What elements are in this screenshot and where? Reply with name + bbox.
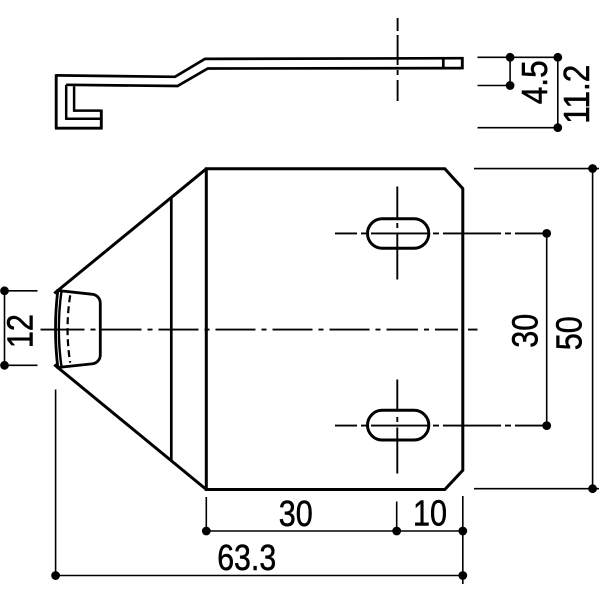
extension tick middle bbox=[396, 502, 398, 532]
dimension dots 4.5 bbox=[506, 53, 515, 62]
slotted hole top bbox=[368, 219, 429, 249]
dimension line 4.5 bbox=[509, 57, 511, 85]
hook outer contour bbox=[55, 74, 102, 128]
svg-text:11.2: 11.2 bbox=[556, 65, 597, 124]
side view top surface bbox=[56, 58, 461, 77]
hook lip top line bbox=[74, 109, 101, 112]
extension line top bbox=[478, 56, 561, 58]
svg-text:10: 10 bbox=[413, 493, 447, 534]
dimension line 30/10 bbox=[206, 530, 463, 532]
side view bottom surface bbox=[66, 68, 461, 86]
extension line middle bbox=[478, 85, 515, 87]
tab inner bend curve bbox=[59, 291, 62, 367]
hole bottom vertical center line bbox=[396, 380, 398, 475]
dimension line 50 bbox=[592, 169, 594, 489]
dimension 12 left bbox=[5, 291, 38, 366]
extension line bottom bbox=[478, 127, 561, 129]
extension line 12 top bbox=[5, 290, 38, 292]
dimension line 11.2 bbox=[557, 57, 559, 127]
main horizontal center line bbox=[41, 329, 478, 331]
dimension 4.5 / 11.2 extension lines bbox=[478, 57, 561, 127]
hole top horizontal center line bbox=[335, 232, 547, 234]
extension tick right (shared with 63.3) bbox=[462, 496, 464, 584]
taper upper diagonal bbox=[54, 169, 206, 294]
svg-text:4.5: 4.5 bbox=[514, 60, 555, 104]
dimension line 63.3 bbox=[56, 575, 463, 577]
svg-text:50: 50 bbox=[549, 316, 590, 350]
hook inner vertical A bbox=[65, 85, 68, 120]
tab hidden edge (dashed) bbox=[68, 295, 71, 362]
hook lip mid line bbox=[66, 117, 101, 120]
extension tick 63.3 left bbox=[55, 390, 57, 581]
svg-text:63.3: 63.3 bbox=[217, 537, 276, 578]
svg-text:12: 12 bbox=[0, 314, 41, 348]
dimension 30 right bbox=[546, 233, 548, 425]
extension line 50 bottom bbox=[474, 488, 599, 490]
bottom dimension row 2: 63.3 bbox=[56, 390, 463, 581]
hole bottom horizontal center line bbox=[335, 425, 547, 427]
slotted hole bottom bbox=[368, 410, 429, 440]
bottom dimension row 1: 30 and 10 bbox=[206, 496, 463, 584]
side view center line bbox=[397, 18, 399, 101]
hook inner vertical B bbox=[73, 86, 76, 112]
hole top vertical center line bbox=[396, 187, 398, 280]
extension line 50 top bbox=[474, 168, 599, 170]
dimension dots 11.2 bbox=[553, 53, 562, 62]
bend line bbox=[170, 197, 173, 460]
tab outline (hook front view) bbox=[56, 291, 101, 368]
hook lip end face bbox=[100, 110, 103, 130]
dimension line 12 bbox=[4, 291, 6, 366]
dimension 50 right bbox=[474, 169, 599, 489]
side view right end face bbox=[461, 57, 464, 70]
extension line 12 bottom bbox=[5, 364, 38, 366]
svg-text:30: 30 bbox=[279, 493, 313, 534]
side view end weld tick bbox=[442, 58, 445, 70]
extension tick left bbox=[205, 497, 207, 532]
taper lower diagonal bbox=[54, 365, 206, 490]
plate outline bbox=[206, 169, 463, 490]
svg-text:30: 30 bbox=[505, 314, 546, 348]
